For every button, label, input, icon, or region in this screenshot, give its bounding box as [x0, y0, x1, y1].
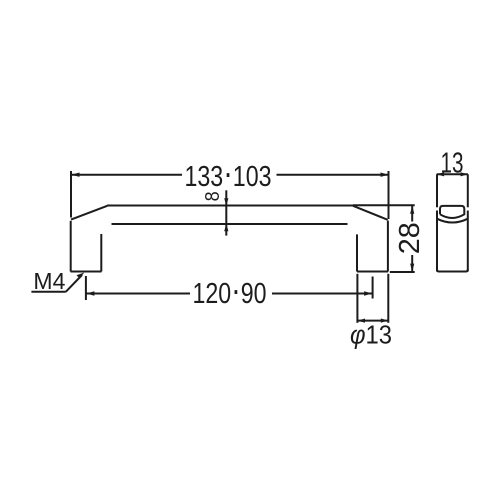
handle bottom bar line [112, 223, 348, 225]
side view right outer line lower [467, 211, 469, 272]
extension line top for 28 [353, 204, 415, 206]
dimension line 133·103 right segment [277, 174, 389, 176]
right leg bottom line [357, 271, 388, 273]
svg-text:13: 13 [441, 148, 464, 180]
arrowhead 120·90 left [86, 291, 94, 295]
side view right outer line upper [467, 174, 469, 207]
svg-text:8: 8 [202, 191, 224, 201]
arrowhead 133·103 right [381, 173, 389, 177]
svg-text:120·90: 120·90 [193, 269, 267, 310]
arrowhead 13 side right [461, 172, 468, 176]
arrowhead 8 bottom (up) [224, 224, 228, 231]
dimension line 28 upper segment [411, 206, 413, 222]
side view left outer line lower [436, 211, 438, 272]
arrowhead phi13 left [358, 319, 365, 323]
right leg outer line [387, 221, 389, 272]
left leg inner line [100, 234, 102, 272]
svg-text:28: 28 [394, 222, 426, 254]
side view bar cross-section [440, 206, 464, 218]
arrowhead 28 top (up) [410, 206, 414, 214]
extension line bottom for 28 [390, 271, 415, 273]
arrowhead phi13 right [381, 319, 388, 323]
extension line left for phi13 [356, 274, 358, 323]
dimension line 120·90 right segment [272, 293, 372, 295]
svg-text:φ13: φ13 [350, 319, 392, 349]
extension line right for 133·103 [388, 171, 390, 219]
dimension line 13 side view [437, 173, 468, 175]
handle left chamfer diagonal [71, 206, 107, 220]
extension line left for 133·103 [70, 171, 72, 218]
extension line right for phi13 [387, 274, 389, 323]
svg-text:M4: M4 [33, 268, 65, 294]
svg-text:133·103: 133·103 [185, 152, 272, 193]
M4 leader diagonal [66, 275, 82, 292]
handle top bar line [107, 205, 353, 207]
right leg inner line [356, 234, 358, 271]
left leg outer line [70, 221, 72, 272]
dimension line 133·103 left segment [72, 174, 183, 176]
thickness 8 dimension line [225, 190, 227, 235]
arrowhead 13 side left [437, 172, 444, 176]
arrowhead M4 leader [77, 273, 85, 279]
arrowhead 8 top (down) [224, 198, 228, 205]
arrowhead 120·90 right [364, 291, 372, 295]
left leg bottom line [71, 271, 102, 273]
M4 leader underline [31, 291, 65, 293]
side view bar bottom arc [437, 219, 468, 223]
extension line right for 120·90 [372, 277, 374, 299]
handle right chamfer diagonal [353, 206, 388, 220]
dimension line phi13 [358, 320, 389, 322]
arrowhead 133·103 left [71, 173, 79, 177]
arrowhead 28 bottom (down) [410, 264, 414, 272]
dimension line 120·90 left segment [86, 293, 190, 295]
side view bottom line [437, 270, 468, 272]
side view left outer line upper [436, 174, 438, 207]
dimension line 28 lower segment [411, 255, 413, 272]
extension line left for 120·90 [85, 276, 87, 300]
